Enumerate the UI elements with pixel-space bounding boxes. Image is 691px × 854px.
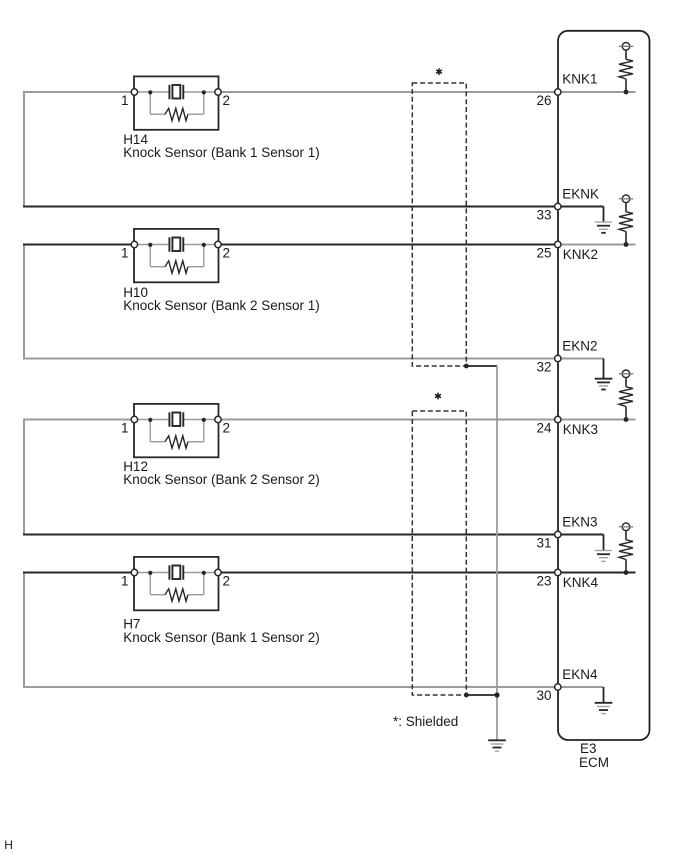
svg-text:24: 24	[536, 421, 552, 436]
svg-text:2: 2	[223, 421, 231, 436]
svg-text:2: 2	[223, 246, 231, 261]
svg-text:EKN4: EKN4	[562, 667, 598, 682]
svg-text:KNK4: KNK4	[563, 575, 599, 590]
svg-text:26: 26	[536, 93, 551, 108]
svg-text:23: 23	[536, 574, 551, 589]
svg-text:Knock Sensor (Bank 2 Sensor 1): Knock Sensor (Bank 2 Sensor 1)	[123, 298, 320, 313]
svg-text:EKNK: EKNK	[562, 187, 599, 202]
svg-text:EKN3: EKN3	[562, 515, 597, 530]
svg-text:25: 25	[536, 246, 551, 261]
svg-text:ECM: ECM	[579, 755, 609, 770]
svg-text:EKN2: EKN2	[562, 339, 597, 354]
svg-text:32: 32	[536, 360, 551, 375]
svg-text:30: 30	[536, 688, 551, 703]
svg-text:E3: E3	[580, 741, 597, 756]
svg-text:KNK1: KNK1	[562, 72, 597, 87]
svg-text:33: 33	[536, 208, 551, 223]
svg-text:1: 1	[121, 246, 129, 261]
svg-text:1: 1	[121, 93, 129, 108]
svg-text:1: 1	[121, 574, 129, 589]
svg-text:Knock Sensor (Bank 2 Sensor 2): Knock Sensor (Bank 2 Sensor 2)	[123, 472, 320, 487]
svg-text:2: 2	[223, 93, 231, 108]
svg-text:KNK2: KNK2	[563, 247, 598, 262]
svg-text:1: 1	[121, 421, 129, 436]
svg-text:H: H	[4, 838, 13, 852]
svg-text:2: 2	[223, 574, 231, 589]
svg-text:Knock Sensor (Bank 1 Sensor 1): Knock Sensor (Bank 1 Sensor 1)	[123, 145, 320, 160]
svg-text:31: 31	[536, 536, 551, 551]
svg-text:Knock Sensor (Bank 1 Sensor 2): Knock Sensor (Bank 1 Sensor 2)	[123, 630, 320, 645]
svg-text:KNK3: KNK3	[563, 422, 598, 437]
svg-text:*: Shielded: *: Shielded	[393, 714, 458, 729]
